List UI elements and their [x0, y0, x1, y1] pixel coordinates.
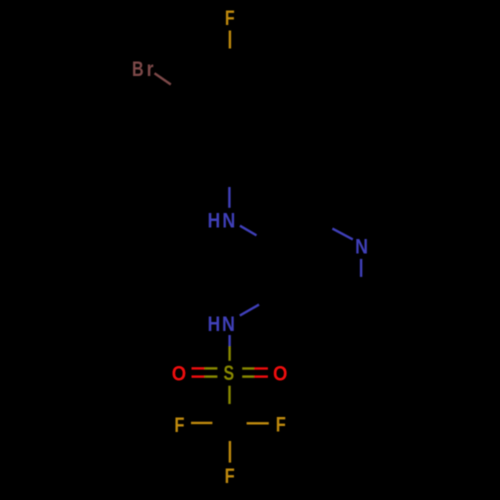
svg-text:H: H: [208, 208, 221, 232]
svg-text:F: F: [225, 6, 235, 30]
svg-text:N: N: [222, 312, 235, 336]
svg-text:O: O: [273, 361, 287, 385]
svg-text:F: F: [225, 464, 235, 488]
svg-text:B: B: [132, 57, 144, 81]
svg-text:H: H: [208, 312, 221, 336]
svg-text:N: N: [355, 235, 368, 259]
svg-text:O: O: [172, 362, 186, 386]
svg-text:S: S: [224, 361, 235, 385]
svg-text:F: F: [276, 413, 286, 437]
svg-text:F: F: [174, 413, 184, 437]
svg-text:N: N: [222, 208, 235, 232]
svg-text:r: r: [147, 57, 154, 81]
